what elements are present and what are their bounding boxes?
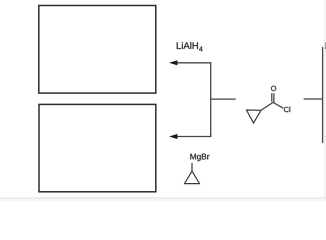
branch line right vertical (clipped scheme) (322, 47, 324, 143)
arrow bottom shaft (177, 136, 212, 138)
stub to molecule left (211, 98, 236, 100)
page right border (light) (324, 0, 326, 198)
answer box 2 (bottom product) (39, 104, 156, 191)
bond ring to carbonyl C (261, 102, 273, 110)
carbonyl double bond C=O (271, 93, 273, 102)
answer box 1 (top product) (39, 6, 156, 94)
branch line left vertical (210, 63, 212, 137)
bond C-Cl (273, 102, 283, 108)
reagent cyclopropylmagnesium bromide: label MgBr (190, 154, 209, 161)
bond Mg-cyclopropane (191, 163, 193, 171)
arrow top head (169, 60, 177, 65)
atom label O (271, 86, 276, 91)
cyclopropane ring (Grignard) (185, 171, 200, 183)
clipped label L... of right branch (325, 42, 326, 49)
atom label Cl (284, 107, 290, 113)
label LiAlH4 (177, 42, 203, 51)
page bottom separator (0, 199, 326, 201)
arrow bottom head (169, 134, 177, 139)
arrow top shaft (177, 62, 212, 64)
cyclopropanecarbonyl chloride: cyclopropane ring (247, 110, 262, 123)
stub to molecule right (304, 98, 323, 100)
